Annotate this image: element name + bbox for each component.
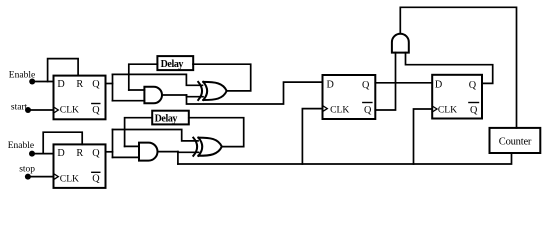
svg-text:Q: Q	[362, 80, 370, 91]
node stop dot	[25, 174, 31, 180]
svg-text:Delay: Delay	[161, 59, 184, 70]
svg-text:D: D	[327, 80, 334, 91]
wire W2 Q to XOR1 upper input	[113, 74, 203, 85]
svg-text:CLK: CLK	[60, 105, 79, 116]
flip-flop FF2 box	[432, 75, 482, 119]
wire AND1 upper input	[129, 89, 145, 91]
wire AND2 output	[158, 151, 178, 153]
svg-text:Q: Q	[470, 105, 478, 116]
clock triangle FF1	[54, 107, 59, 113]
svg-text:R: R	[76, 79, 83, 90]
and-gate AND3 (pointing up)	[392, 34, 409, 53]
wire FF4 Q output	[106, 151, 113, 153]
node start dot	[25, 107, 31, 113]
wire AND2 junction to bottom bus	[177, 152, 179, 164]
svg-text:Q: Q	[92, 105, 100, 116]
clock triangle FF4	[54, 174, 59, 180]
wire XOR2 output feedback to Delay2	[189, 118, 244, 147]
flip-flop FF3 box	[323, 75, 376, 119]
clock triangle FF2	[432, 106, 437, 112]
and-gate AND1	[144, 87, 162, 104]
svg-text:CLK: CLK	[438, 105, 457, 116]
svg-text:stop: stop	[19, 165, 35, 175]
xor XOR1	[198, 82, 227, 100]
svg-text:D: D	[435, 80, 442, 91]
svg-text:Q: Q	[92, 148, 100, 159]
wire Enable2 to D of FF4	[32, 153, 54, 155]
wire AND2 lower input	[113, 156, 140, 158]
wire R loop FF4	[43, 132, 82, 153]
svg-text:CLK: CLK	[330, 104, 349, 115]
wire XOR1 output feedback to Delay1	[193, 64, 251, 91]
wire R loop FF1	[48, 59, 79, 82]
svg-text:D: D	[57, 79, 64, 90]
counter Counter box	[490, 128, 541, 153]
wire start to CLK of FF1	[28, 109, 54, 111]
delay Delay1 box	[157, 56, 193, 70]
svg-text:Q: Q	[92, 79, 100, 90]
wire FF3 CLK from bottom bus	[302, 109, 322, 164]
wire Delay2 input from AND2 upper branch	[125, 118, 153, 147]
wire AND1 output to XOR1 lower input	[187, 95, 204, 97]
wire FF1 Q output	[106, 83, 113, 85]
wire FF3 Q to FF2 D	[375, 82, 432, 84]
wire stop to CLK of FF4	[28, 176, 54, 178]
svg-text:Counter: Counter	[499, 136, 532, 147]
and-gate AND2	[139, 143, 158, 161]
wire AND2 upper input	[125, 145, 139, 147]
wire Q branch vertical	[112, 74, 114, 100]
wire Counter output bottom bus	[178, 153, 512, 164]
wire Delay1 input from AND1 upper branch	[129, 64, 158, 90]
wire AND3 output to Counter input	[400, 7, 516, 128]
svg-text:CLK: CLK	[60, 173, 79, 184]
svg-text:D: D	[57, 148, 64, 159]
flip-flop FF4 box	[54, 144, 106, 188]
svg-text:R: R	[76, 148, 83, 159]
svg-text:Q: Q	[469, 80, 477, 91]
wire FF2 CLK from bottom bus	[414, 109, 433, 164]
wire Enable to D of FF1	[32, 81, 53, 83]
node Enable dot	[29, 79, 35, 85]
delay Delay2 box	[152, 111, 189, 125]
wire W2b Q4 to XOR2 upper input	[113, 130, 199, 141]
wire AND1 output	[162, 94, 187, 96]
wire AND1 output junction to FF3 D	[187, 82, 323, 104]
wire AND2 output to XOR2 lower input	[178, 151, 199, 154]
wire FF2 Q to AND3 input B	[406, 53, 493, 84]
clock triangle FF3	[323, 106, 328, 112]
wire FF3 Qbar to AND3 input A	[375, 53, 395, 110]
flip-flop FF1 box	[54, 76, 106, 120]
svg-text:Enable: Enable	[8, 141, 34, 151]
wire Q4 branch vertical	[112, 130, 114, 158]
svg-text:Delay: Delay	[155, 114, 178, 125]
svg-text:Q: Q	[364, 105, 372, 116]
wire AND1 lower input	[113, 100, 145, 102]
xor XOR2	[193, 138, 222, 156]
node Enable2 dot	[29, 151, 35, 157]
svg-text:Q: Q	[92, 174, 100, 185]
